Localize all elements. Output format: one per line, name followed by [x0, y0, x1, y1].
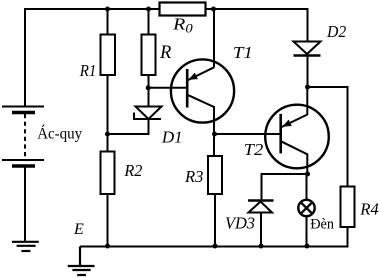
node junction bottom VD3	[259, 244, 264, 249]
node junction top rail R1	[105, 7, 110, 12]
diode D2	[294, 9, 321, 88]
node junction D2 T2 emitter R4	[305, 85, 310, 90]
wire rail to R	[148, 9, 150, 35]
svg-text:Đèn: Đèn	[310, 217, 335, 233]
node junction R1 R2 D1	[105, 132, 110, 137]
wire node to R4 top	[308, 87, 348, 187]
wire R2 to bottom rail	[107, 194, 109, 247]
wire T1 collector down	[213, 106, 215, 157]
resistor R	[142, 35, 156, 76]
resistor R2	[101, 152, 115, 195]
node junction bottom R2	[105, 244, 110, 249]
node junction R D1 T1 base	[146, 85, 151, 90]
svg-text:R3: R3	[184, 167, 203, 186]
svg-text:Ác-quy: Ác-quy	[37, 126, 82, 143]
wire R4 to bottom rail	[347, 227, 349, 248]
resistor R1	[101, 35, 116, 76]
wire R1 to R2	[107, 75, 109, 152]
wire dashed battery middle	[24, 114, 26, 160]
svg-text:T2: T2	[244, 140, 264, 159]
svg-text:E: E	[73, 221, 84, 238]
resistor R0	[160, 3, 206, 16]
wire node to T1 base	[148, 87, 187, 89]
svg-text:VD3: VD3	[225, 214, 255, 233]
wire T2 collector down	[306, 154, 308, 176]
lamp Den	[298, 200, 314, 216]
svg-text:R: R	[159, 43, 171, 63]
svg-text:D2: D2	[326, 22, 347, 41]
wire R to D1 node	[148, 75, 150, 108]
resistor R4	[341, 187, 355, 228]
diode D1 zener	[134, 107, 162, 120]
svg-text:D1: D1	[161, 127, 183, 146]
wire battery to ground	[24, 167, 26, 241]
wire rail to T1 emitter	[213, 9, 215, 68]
node junction T2 collector VD3 lamp	[305, 172, 310, 177]
wire rail to R1	[107, 9, 109, 35]
wire lamp top	[306, 174, 308, 200]
ground battery	[12, 242, 39, 251]
wire node to T2 base	[215, 133, 281, 135]
wire lamp to bottom rail	[306, 217, 308, 247]
wire left drop to battery	[24, 8, 26, 107]
node junction bottom R3	[213, 244, 218, 249]
node junction T1 collector T2 base R3	[212, 132, 217, 137]
svg-text:T1: T1	[233, 43, 253, 62]
diode VD3	[248, 201, 274, 213]
node junction bottom lamp	[305, 244, 310, 249]
ground bottom	[68, 266, 95, 275]
node junction rail T1 emitter	[211, 7, 216, 12]
svg-text:R0: R0	[172, 15, 194, 36]
svg-text:R4: R4	[359, 200, 379, 219]
wire node to VD3	[262, 174, 308, 200]
node junction top rail R	[146, 7, 151, 12]
wire T2 emitter up	[306, 87, 308, 115]
resistor R3	[208, 156, 222, 194]
transistor T1	[171, 59, 234, 122]
svg-text:R2: R2	[123, 161, 142, 180]
transistor T2	[265, 105, 329, 169]
wire bottom rail to ground	[79, 247, 81, 266]
wire top rail	[24, 8, 309, 10]
wire bottom rail	[80, 246, 349, 248]
battery Ac-quy cell 1	[2, 107, 44, 113]
wire D1 to left node	[108, 119, 149, 134]
wire R3 to bottom rail	[214, 194, 216, 247]
wire VD3 to bottom rail	[260, 213, 262, 247]
battery Ac-quy cell 2	[2, 160, 44, 166]
svg-text:R1: R1	[79, 61, 96, 80]
